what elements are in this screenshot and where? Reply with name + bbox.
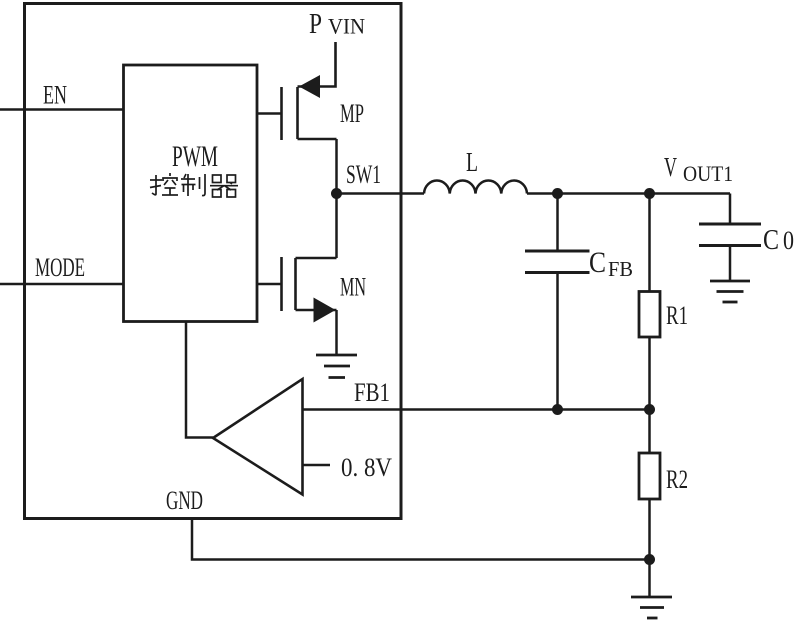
wire FB1 node to R2 bbox=[648, 410, 651, 454]
node bottom ground junction dot bbox=[644, 554, 655, 565]
wire MODE input bbox=[0, 283, 124, 286]
svg-text:OUT1: OUT1 bbox=[683, 161, 733, 186]
capacitor C_O bbox=[699, 224, 761, 246]
wire C_O to ground bbox=[729, 246, 732, 282]
IC outer boundary box bbox=[25, 4, 402, 519]
label R1 bbox=[666, 301, 688, 330]
inductor L bbox=[424, 181, 527, 194]
wire VOUT1 to C_O bbox=[729, 194, 732, 225]
wire 0.8V reference stub bbox=[303, 464, 331, 467]
wire MP drain to SW1 node bbox=[335, 139, 338, 194]
label FB1 bbox=[354, 378, 390, 407]
wire junction to ground symbol bbox=[648, 560, 651, 598]
wire PVIN to MP source bbox=[298, 42, 336, 87]
MP source arrow bbox=[299, 75, 320, 98]
svg-text:C: C bbox=[589, 246, 606, 279]
ground (C_O) bbox=[710, 281, 750, 302]
svg-text:FB: FB bbox=[608, 257, 633, 281]
svg-text:R1: R1 bbox=[666, 301, 688, 330]
wire MP gate to PWM bbox=[257, 112, 282, 115]
svg-text:FB1: FB1 bbox=[354, 378, 390, 407]
label 0.8V bbox=[341, 453, 392, 482]
svg-text:R2: R2 bbox=[666, 465, 688, 494]
svg-text:MP: MP bbox=[340, 99, 364, 128]
label C 0 bbox=[763, 225, 794, 256]
wire MN gate to PWM bbox=[257, 283, 282, 286]
resistor R2 bbox=[639, 453, 660, 499]
svg-text:MN: MN bbox=[340, 273, 366, 302]
svg-text:C: C bbox=[763, 225, 779, 256]
wire GND pin to bottom net bbox=[192, 519, 650, 560]
svg-text:VIN: VIN bbox=[328, 14, 365, 39]
label 控 (hand-drawn glyph) bbox=[150, 173, 178, 195]
wire R1 to FB1 node bbox=[648, 337, 651, 410]
svg-text:SW1: SW1 bbox=[346, 160, 381, 189]
label SW1 bbox=[346, 160, 381, 189]
capacitor C_FB bbox=[525, 251, 590, 273]
label C FB bbox=[589, 246, 633, 281]
transistor Q2 MN (NMOS) bbox=[282, 257, 337, 311]
wire PWM to amp input bbox=[186, 322, 213, 438]
svg-text:EN: EN bbox=[43, 81, 67, 110]
svg-text:GND: GND bbox=[166, 486, 203, 515]
wire VOUT1 down to R1 bbox=[648, 194, 651, 292]
node junction dot at L / C_FB bbox=[552, 188, 563, 199]
label P VIN (power net) bbox=[309, 9, 365, 40]
label MODE bbox=[35, 253, 85, 282]
svg-text:0: 0 bbox=[783, 226, 794, 255]
label MP bbox=[340, 99, 364, 128]
op-amp U1 (PWM controller block) bbox=[124, 65, 258, 322]
wire MN source to ground bbox=[335, 310, 338, 355]
node SW1 junction dot bbox=[331, 188, 342, 199]
wire C_FB bottom to FB1 net bbox=[556, 273, 559, 410]
wire SW1 to inductor bbox=[337, 192, 425, 195]
transistor Q1 MP (PMOS) bbox=[282, 87, 337, 140]
label EN bbox=[43, 81, 67, 110]
capacitor C_FB wire from VOUT net bbox=[556, 194, 559, 252]
label PWM bbox=[172, 140, 218, 173]
label 制 (hand-drawn glyph) bbox=[181, 174, 205, 196]
ground (MN source) bbox=[316, 355, 357, 378]
svg-text:P: P bbox=[309, 9, 322, 40]
label V OUT1 bbox=[664, 152, 733, 186]
label R2 bbox=[666, 465, 688, 494]
wire R2 to bottom ground net bbox=[648, 499, 651, 560]
svg-text:V: V bbox=[664, 152, 677, 182]
wire FB1 from amp output bbox=[303, 408, 650, 411]
label 器 (hand-drawn glyph) bbox=[210, 175, 238, 197]
wire SW1 node to MN drain bbox=[335, 194, 338, 259]
node junction dot R1/R2/FB1 bbox=[644, 404, 655, 415]
label GND bbox=[166, 486, 203, 515]
svg-text:MODE: MODE bbox=[35, 253, 85, 282]
node VOUT1 junction dot bbox=[644, 188, 655, 199]
node junction dot C_FB / FB1 bbox=[552, 404, 563, 415]
op-amp U2 (error amplifier triangle) bbox=[213, 379, 303, 495]
ground (system) bbox=[631, 597, 672, 618]
resistor R1 bbox=[639, 292, 660, 338]
wire inductor to VOUT1 bbox=[527, 192, 730, 195]
MN source arrow bbox=[314, 298, 336, 323]
svg-text:0. 8V: 0. 8V bbox=[341, 453, 392, 482]
wire EN input bbox=[0, 108, 124, 111]
label L bbox=[466, 147, 478, 177]
svg-text:L: L bbox=[466, 147, 478, 177]
svg-text:PWM: PWM bbox=[172, 140, 218, 173]
label MN bbox=[340, 273, 366, 302]
